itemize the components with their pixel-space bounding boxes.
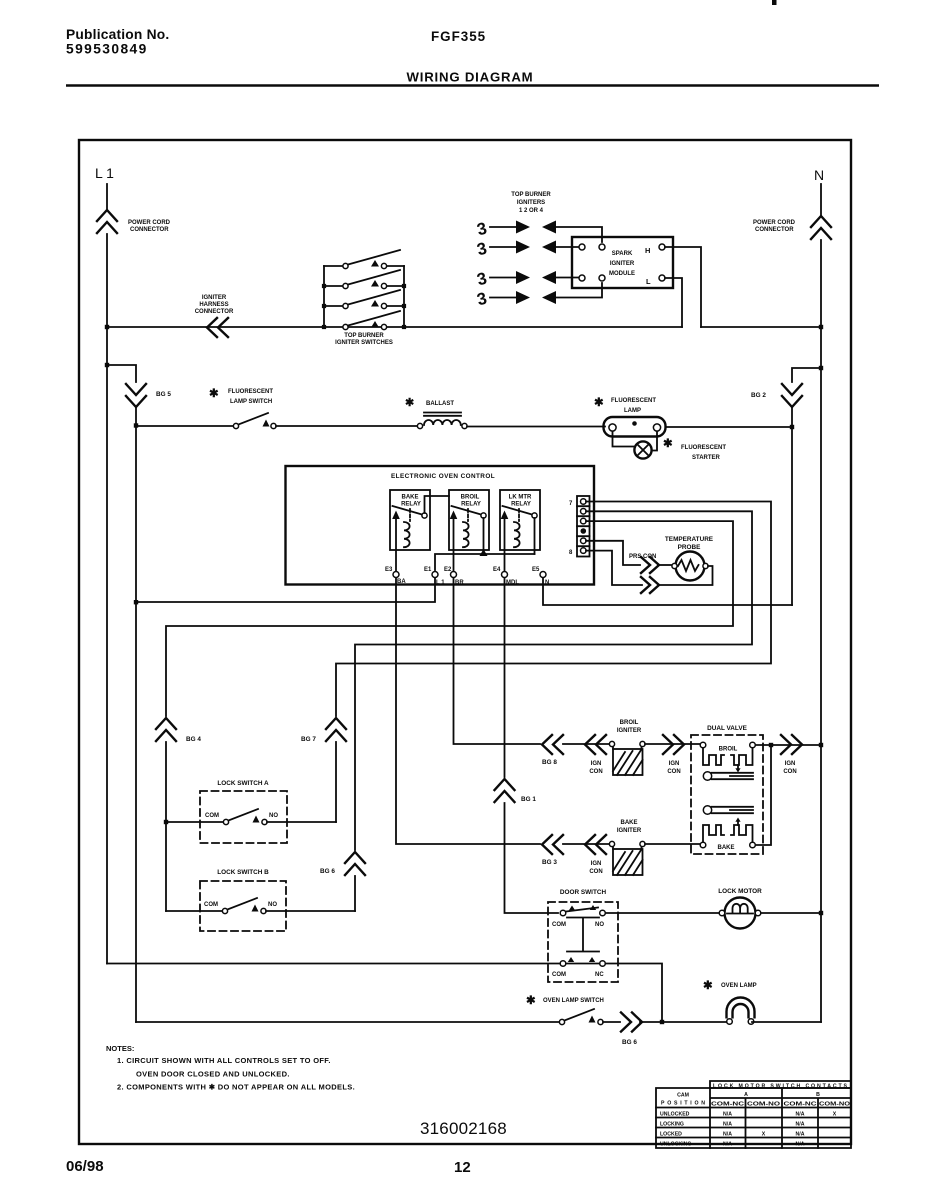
- connector BG6 oven lamp (double chevron right): [621, 1013, 642, 1032]
- svg-text:CAM: CAM: [677, 1093, 689, 1099]
- svg-text:2. COMPONENTS WITH ✱ DO NOT A: 2. COMPONENTS WITH ✱ DO NOT APPEAR ON AL…: [117, 1083, 355, 1092]
- svg-text:N/A: N/A: [723, 1142, 732, 1148]
- broil relay coil: [463, 509, 469, 547]
- svg-text:BAKE: BAKE: [620, 820, 637, 826]
- connector IGN CON broil (double chevron left): [585, 735, 606, 754]
- spark module terminal pins left top: [579, 244, 605, 250]
- svg-text:✱: ✱: [405, 397, 414, 409]
- switch: fluorescent lamp switch: [233, 413, 276, 429]
- wire chevrons to broil igniter: [563, 743, 609, 745]
- igniter electrode row2: [475, 239, 579, 260]
- svg-text:N/A: N/A: [796, 1132, 805, 1138]
- svg-text:IGNITER: IGNITER: [610, 261, 635, 267]
- notes text block: [106, 1044, 355, 1092]
- wire broil relay to E2: [453, 550, 455, 571]
- junction dots on switch buses: [322, 284, 406, 329]
- wire L1 bottom to door COM: [107, 963, 560, 965]
- connector BG5 (double chevron down): [126, 384, 146, 407]
- svg-text:COM-NO: COM-NO: [819, 1102, 850, 1108]
- svg-text:BAKE: BAKE: [717, 845, 734, 851]
- svg-text:BROIL: BROIL: [620, 720, 639, 726]
- wire L1 branch to BG5: [107, 365, 136, 382]
- valve bake arrow: [737, 820, 739, 825]
- svg-text:N/A: N/A: [723, 1122, 732, 1128]
- svg-text:IGN: IGN: [669, 761, 680, 767]
- label bake relay: [401, 495, 421, 508]
- label bake igniter: [617, 820, 642, 834]
- svg-text:DUAL VALVE: DUAL VALVE: [707, 725, 748, 732]
- wire bake igniter to valve: [645, 843, 700, 845]
- label fluorescent lamp: [594, 397, 656, 414]
- svg-text:IGNITER: IGNITER: [617, 828, 642, 834]
- junction dot E1 feed: [134, 600, 138, 604]
- wire chevrons to bake igniter: [563, 843, 609, 845]
- connector chevron probe bottom (>>): [641, 577, 659, 593]
- wire top burner switch right bus: [403, 266, 405, 327]
- svg-text:IGN: IGN: [591, 761, 602, 767]
- svg-text:BROIL: BROIL: [719, 747, 738, 753]
- junction dot N at main bus: [819, 325, 823, 329]
- svg-text:BG 6: BG 6: [320, 868, 335, 875]
- scan speck top right: [772, 0, 777, 5]
- page border frame: [79, 140, 851, 1144]
- label E5 N: [532, 567, 549, 586]
- svg-text:UNLOCKING: UNLOCKING: [660, 1142, 691, 1148]
- wire lamp to BG2 junction: [666, 426, 793, 428]
- door switch mechanical link: [567, 918, 599, 952]
- svg-text:CON: CON: [783, 769, 796, 775]
- wire chevron to oven lamp: [640, 1021, 727, 1023]
- wire pin3 nest to BG4: [166, 521, 733, 716]
- svg-text:BA: BA: [397, 579, 406, 585]
- svg-text:HARNESS: HARNESS: [199, 302, 228, 308]
- wire H terminal to N bus: [665, 247, 701, 327]
- junction dot lamp row: [134, 423, 138, 427]
- svg-text:N/A: N/A: [723, 1132, 732, 1138]
- svg-text:12: 12: [454, 1159, 471, 1176]
- wire lamp row left: [136, 425, 233, 427]
- valve broil terminals: [700, 742, 755, 752]
- svg-text:CONNECTOR: CONNECTOR: [130, 227, 169, 233]
- svg-text:L: L: [646, 277, 651, 286]
- switch: oven lamp switch: [559, 1009, 603, 1025]
- svg-text:PROBE: PROBE: [678, 544, 701, 551]
- valve broil arrow: [737, 765, 739, 770]
- svg-text:N/A: N/A: [796, 1122, 805, 1128]
- svg-text:A: A: [744, 1092, 748, 1098]
- valve bake body: [703, 806, 753, 814]
- lock motor relay contact: [501, 506, 537, 550]
- svg-text:MODULE: MODULE: [609, 271, 635, 277]
- svg-text:E3: E3: [385, 567, 393, 573]
- oven lamp: [727, 998, 755, 1025]
- label ign con broil left: [589, 761, 602, 775]
- wire door NC to lamp row: [606, 964, 663, 1023]
- connector BG4 (double chevron up): [156, 718, 176, 741]
- svg-text:1. CIRCUIT SHOWN WITH ALL CON: 1. CIRCUIT SHOWN WITH ALL CONTROLS SET T…: [117, 1056, 331, 1065]
- svg-text:✱: ✱: [209, 388, 219, 400]
- svg-text:SPARK: SPARK: [612, 251, 633, 257]
- svg-text:BG 3: BG 3: [542, 859, 557, 866]
- connector IGN CON valve right (double chevron right): [781, 735, 802, 754]
- svg-text:E1: E1: [424, 567, 432, 573]
- svg-text:IGNITER SWITCHES: IGNITER SWITCHES: [335, 340, 393, 346]
- label oven lamp: [703, 980, 757, 992]
- wire switch to chevron: [603, 1021, 620, 1023]
- junction dot common rail: [480, 549, 488, 556]
- svg-text:BG 7: BG 7: [301, 736, 316, 743]
- wire BG5 to lamp row junction: [135, 408, 137, 425]
- wire lock A feed: [166, 821, 223, 823]
- switch S3 top burner row3: [324, 290, 404, 309]
- spark module terminal pin L: [659, 275, 665, 281]
- svg-text:IGNITER: IGNITER: [202, 295, 227, 301]
- svg-text:E5: E5: [532, 567, 540, 573]
- igniter electrode row3: [475, 269, 579, 290]
- label broil relay: [461, 495, 481, 508]
- svg-text:CONNECTOR: CONNECTOR: [755, 227, 794, 233]
- wire L1 lead: [106, 184, 108, 209]
- label broil igniter: [617, 720, 642, 734]
- lock switch B dashed box: [200, 881, 286, 931]
- relay K2 broil relay box: [449, 490, 489, 550]
- svg-text:LOCK SWITCH B: LOCK SWITCH B: [217, 869, 269, 876]
- svg-text:COM: COM: [552, 922, 566, 928]
- relay K3 lock motor relay box: [500, 490, 540, 550]
- label E4 MDL: [493, 567, 519, 586]
- svg-text:FGF355: FGF355: [431, 29, 486, 44]
- svg-text:BAKE: BAKE: [401, 495, 418, 501]
- wire oven lamp to N: [752, 1021, 821, 1023]
- wire lock A NO to BG7: [267, 821, 336, 823]
- wire main bus L1: [107, 326, 682, 328]
- svg-text:STARTER: STARTER: [692, 455, 721, 461]
- svg-text:FLUORESCENT: FLUORESCENT: [228, 389, 273, 395]
- wire BG2 through lamp row to E5 nest: [791, 408, 793, 605]
- wire pin5 to probe: [586, 541, 640, 565]
- svg-text:COM-NC: COM-NC: [711, 1102, 744, 1108]
- label oven lamp switch: [526, 995, 604, 1007]
- connector BG6 lock switch B (double chevron up): [345, 852, 365, 875]
- svg-text:NO: NO: [268, 902, 277, 908]
- svg-text:RELAY: RELAY: [511, 502, 531, 508]
- relay K1 bake relay box: [390, 490, 430, 550]
- label E1 L1: [424, 567, 445, 586]
- label fluorescent lamp switch: [209, 388, 273, 405]
- svg-text:B: B: [816, 1092, 820, 1098]
- switch S4 top burner row4 on main bus: [343, 311, 400, 330]
- bake relay coil: [404, 509, 410, 547]
- junction dot motor N: [819, 911, 823, 915]
- wire pin2 nest to lockB chevron: [355, 511, 752, 850]
- wire x136 vertical lower: [135, 427, 137, 1022]
- svg-text:LOCKING: LOCKING: [660, 1122, 684, 1128]
- svg-text:E4: E4: [493, 567, 501, 573]
- svg-text:CON: CON: [589, 869, 602, 875]
- valve broil body: [703, 772, 753, 780]
- connector IGN CON bake (double chevron left): [585, 835, 606, 854]
- spark module terminal pins left bottom: [579, 275, 605, 281]
- label fluorescent starter: [663, 438, 726, 461]
- junction dot at BG2 lamp row: [790, 425, 794, 429]
- wire broil igniter to valve: [645, 743, 700, 745]
- wire probe loop to pin 8: [586, 551, 642, 585]
- svg-text:LAMP: LAMP: [624, 408, 641, 414]
- svg-text:BG 6: BG 6: [622, 1039, 637, 1046]
- connector: power cord connector N (double chevron up): [811, 216, 831, 239]
- svg-text:COM: COM: [552, 972, 566, 978]
- connector BG8 broil row (double chevron left): [542, 735, 563, 754]
- wire pin1 nest to BG7: [336, 502, 771, 717]
- door switch lower contacts COM-NC: [552, 957, 605, 978]
- inductor: ballast: [417, 413, 467, 429]
- label ign con bake: [589, 861, 602, 875]
- wire H-segment to N: [701, 326, 821, 328]
- label E2 BR: [444, 567, 464, 586]
- junction dot NC lamp row: [660, 1020, 664, 1024]
- svg-text:ELECTRONIC OVEN CONTROL: ELECTRONIC OVEN CONTROL: [391, 473, 495, 480]
- dual valve dashed box: [691, 735, 763, 854]
- svg-text:POWER CORD: POWER CORD: [753, 220, 796, 226]
- svg-text:BALLAST: BALLAST: [426, 401, 454, 407]
- svg-text:FLUORESCENT: FLUORESCENT: [611, 398, 656, 404]
- terminal E3: [393, 572, 399, 578]
- svg-text:Publication No.: Publication No.: [66, 27, 169, 42]
- connector BG7 (double chevron up): [326, 718, 346, 741]
- valve broil solenoid winding: [703, 748, 753, 765]
- svg-text:NO: NO: [595, 922, 604, 928]
- svg-text:1 2 OR 4: 1 2 OR 4: [519, 208, 544, 214]
- switch: lock switch B: [204, 898, 277, 914]
- svg-text:LOCK MOTOR: LOCK MOTOR: [718, 888, 762, 895]
- svg-text:E2: E2: [444, 567, 452, 573]
- svg-text:IGNITERS: IGNITERS: [517, 200, 545, 206]
- svg-text:OVEN LAMP: OVEN LAMP: [721, 983, 757, 989]
- switch S1 top burner row1: [324, 250, 404, 269]
- spark igniter module U1 box: [572, 237, 673, 288]
- bake igniter element: [609, 841, 645, 875]
- wire BG7 to lock switch A NO: [335, 742, 337, 822]
- wire N lead: [820, 184, 822, 215]
- wire valve bake common riser: [756, 745, 772, 845]
- valve bake terminals: [700, 842, 755, 851]
- svg-text:TOP BURNER: TOP BURNER: [511, 192, 551, 198]
- terminal E5: [540, 572, 546, 578]
- svg-text:LOCK MOTOR SWITCH CONTACTS: LOCK MOTOR SWITCH CONTACTS: [713, 1084, 848, 1090]
- igniter electrode row1: [475, 219, 602, 242]
- junction dot lock switch A feed: [164, 820, 168, 824]
- wire E1 to L1 branch: [136, 578, 435, 602]
- svg-text:TOP BURNER: TOP BURNER: [344, 333, 384, 339]
- wire E4 lock motor feed down: [504, 578, 506, 777]
- svg-text:N/A: N/A: [723, 1112, 732, 1118]
- door switch dashed box: [548, 902, 618, 982]
- wire L terminal to main bus: [665, 278, 682, 327]
- igniter electrode row4: [475, 283, 602, 309]
- label power cord connector (left): [128, 220, 171, 233]
- wire N vertical bus x=821: [820, 240, 822, 1022]
- svg-text:L 1: L 1: [95, 165, 114, 181]
- wire N branch to BG2: [792, 368, 821, 382]
- svg-text:NC: NC: [595, 972, 604, 978]
- wire valve broil to N: [756, 744, 822, 746]
- lock motor M1: [719, 898, 761, 929]
- svg-text:N/A: N/A: [796, 1142, 805, 1148]
- EOC pin header connector: [577, 496, 590, 557]
- electronic oven control box: [286, 466, 595, 585]
- connector: power cord connector L1 (double chevron up): [97, 210, 117, 233]
- connector IGN CON broil right (double chevron right): [663, 735, 684, 754]
- fluorescent lamp body: [604, 417, 666, 437]
- wire chevron to lock switch B NO: [354, 876, 356, 911]
- svg-text:BG 5: BG 5: [156, 391, 171, 398]
- svg-text:LAMP SWITCH: LAMP SWITCH: [230, 399, 272, 405]
- header: publication number: [66, 27, 169, 57]
- header rule: [66, 84, 879, 87]
- label power cord connector (right): [753, 220, 796, 233]
- terminal E4: [502, 572, 508, 578]
- svg-text:IGN: IGN: [785, 761, 796, 767]
- svg-text:X: X: [762, 1132, 766, 1138]
- temperature probe RT1: [672, 552, 708, 581]
- fluorescent starter: [634, 441, 651, 458]
- svg-text:COM-NC: COM-NC: [784, 1102, 817, 1108]
- svg-text:L 1: L 1: [436, 580, 445, 586]
- svg-text:✱: ✱: [663, 438, 673, 450]
- svg-text:MDL: MDL: [506, 580, 519, 586]
- svg-text:✱: ✱: [703, 980, 713, 992]
- svg-text:BG 4: BG 4: [186, 736, 201, 743]
- svg-text:✱: ✱: [594, 397, 604, 409]
- svg-text:N: N: [545, 580, 549, 586]
- label ballast: [405, 397, 454, 409]
- svg-text:FLUORESCENT: FLUORESCENT: [681, 445, 726, 451]
- label spark igniter module: [609, 246, 651, 286]
- svg-text:BG 2: BG 2: [751, 392, 766, 399]
- broil igniter element: [609, 741, 645, 775]
- bake relay contact: [392, 506, 427, 550]
- connector BG1 (double chevron up): [495, 779, 515, 802]
- svg-text:06/98: 06/98: [66, 1158, 104, 1175]
- svg-text:COM-NO: COM-NO: [747, 1102, 780, 1108]
- label top burner igniters 1 2 or 4: [511, 192, 551, 214]
- svg-text:CON: CON: [589, 769, 602, 775]
- wire BG1 to door switch: [505, 803, 559, 913]
- wire BG4 to lock switch A: [165, 742, 167, 911]
- label ign con broil right: [667, 761, 680, 775]
- terminal E2: [451, 572, 457, 578]
- connector chevron probe top (>>): [641, 557, 659, 573]
- label igniter harness connector: [195, 295, 234, 315]
- wire broil contact down to common: [483, 518, 485, 554]
- wire lock B NO to chevron: [266, 910, 355, 912]
- svg-text:WIRING DIAGRAM: WIRING DIAGRAM: [407, 70, 534, 85]
- svg-text:X: X: [833, 1112, 837, 1118]
- wire chevron to probe left: [658, 564, 671, 566]
- wire lk mtr relay to E4: [504, 550, 506, 571]
- svg-text:RELAY: RELAY: [461, 502, 481, 508]
- svg-text:BG 8: BG 8: [542, 759, 557, 766]
- svg-text:COM: COM: [205, 813, 219, 819]
- svg-text:RELAY: RELAY: [401, 502, 421, 508]
- svg-text:OVEN DOOR CLOSED AND UNLOCKED.: OVEN DOOR CLOSED AND UNLOCKED.: [136, 1070, 290, 1079]
- switch S2 top burner row2: [324, 270, 404, 289]
- svg-text:POWER CORD: POWER CORD: [128, 220, 171, 226]
- svg-text:N/A: N/A: [796, 1112, 805, 1118]
- label ign con valve: [783, 761, 796, 775]
- door switch upper contacts COM-NO: [552, 905, 605, 928]
- wire top burner switch left bus: [323, 266, 325, 327]
- label top burner igniter switches: [335, 333, 393, 346]
- wire bake relay to E3: [395, 550, 397, 571]
- broil relay contact: [450, 506, 486, 550]
- spark module terminal pin H: [659, 244, 665, 250]
- svg-text:OVEN LAMP SWITCH: OVEN LAMP SWITCH: [543, 998, 604, 1004]
- svg-text:LOCK SWITCH A: LOCK SWITCH A: [217, 780, 269, 787]
- connector BG2 (double chevron down): [782, 384, 802, 407]
- junction dot L1 at main bus: [105, 325, 109, 329]
- wire ballast to lamp: [467, 426, 605, 428]
- svg-text:COM: COM: [204, 902, 218, 908]
- wire lamp switch row left: [136, 1021, 559, 1023]
- svg-text:599530849: 599530849: [66, 42, 148, 57]
- svg-text:DOOR SWITCH: DOOR SWITCH: [560, 889, 607, 896]
- svg-text:IGN: IGN: [591, 861, 602, 867]
- label E3 BA: [385, 567, 406, 585]
- svg-text:TEMPERATURE: TEMPERATURE: [665, 536, 714, 543]
- svg-text:✱: ✱: [526, 995, 536, 1007]
- fluorescent starter loop wiring: [613, 432, 658, 451]
- svg-text:316002168: 316002168: [420, 1119, 507, 1138]
- lock switch A dashed box: [200, 791, 287, 843]
- svg-text:LOCKED: LOCKED: [660, 1132, 682, 1138]
- connector: igniter harness connector (double chevron left) on main bus: [207, 318, 228, 337]
- svg-text:BROIL: BROIL: [461, 495, 480, 501]
- valve bake solenoid winding: [703, 825, 753, 842]
- junction dot N at BG2 branch: [819, 366, 823, 370]
- terminal E1: [432, 572, 438, 578]
- wire E2 broil feed down: [454, 578, 541, 744]
- connector BG3 bake row (double chevron left): [542, 835, 563, 854]
- switch: lock switch A: [205, 809, 278, 825]
- svg-text:BG 1: BG 1: [521, 796, 536, 803]
- wire lk mtr contact down to common: [534, 518, 536, 554]
- wire E3 bake feed down: [396, 578, 540, 844]
- wire lock motor to N: [761, 912, 821, 914]
- svg-text:CON: CON: [667, 769, 680, 775]
- svg-text:UNLOCKED: UNLOCKED: [660, 1112, 690, 1118]
- svg-text:IGNITER: IGNITER: [617, 728, 642, 734]
- wire L1 vertical bus x=107: [106, 234, 108, 964]
- svg-text:N: N: [814, 167, 824, 183]
- junction dot valve N: [819, 743, 823, 747]
- svg-text:BR: BR: [455, 580, 464, 586]
- svg-text:NOTES:: NOTES:: [106, 1044, 134, 1053]
- wire E5 to N via nest: [543, 578, 792, 605]
- svg-text:LK MTR: LK MTR: [509, 495, 532, 501]
- svg-text:CONNECTOR: CONNECTOR: [195, 309, 234, 315]
- junction dot L1 at BG5 branch: [105, 363, 109, 367]
- wire lock B feed: [166, 910, 222, 912]
- label temperature probe: [665, 536, 714, 551]
- svg-text:H: H: [645, 246, 650, 255]
- svg-text:NO: NO: [269, 813, 278, 819]
- lock motor switch contacts table: [656, 1081, 851, 1148]
- junction dot valve common: [769, 743, 773, 747]
- wire door NO to lock motor: [606, 912, 720, 914]
- label lk mtr relay: [509, 495, 532, 508]
- wire bake contact to broil relay: [425, 496, 450, 513]
